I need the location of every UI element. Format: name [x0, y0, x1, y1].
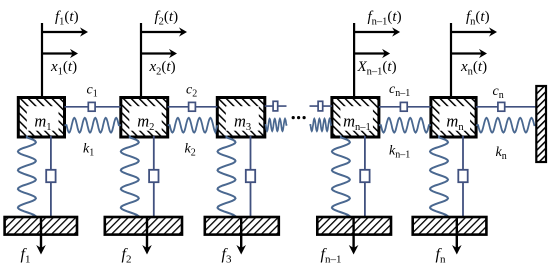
vertical damper under mass 2	[149, 136, 158, 218]
arrow f_2(t)	[141, 31, 182, 33]
vertical damper under mass 3	[246, 136, 255, 218]
ground block 3	[205, 217, 279, 235]
mass m1	[18, 98, 64, 138]
right wall	[536, 86, 546, 162]
arrow x_2(t)	[141, 52, 172, 54]
vertical spring under mass 1	[18, 136, 36, 219]
vertical damper under mass 1	[46, 136, 55, 218]
damper cn-1	[379, 102, 431, 111]
vertical spring under mass 4	[332, 136, 350, 219]
ground block 5	[413, 217, 487, 235]
svg-text:f1(t): f1(t)	[55, 9, 79, 28]
ground block 1	[5, 217, 77, 235]
svg-text:x1(t): x1(t)	[50, 59, 77, 78]
svg-text:xn(t): xn(t)	[460, 59, 487, 78]
output arrow f_n	[456, 217, 458, 248]
force input line mass fn	[450, 23, 452, 100]
damper cn	[476, 102, 536, 111]
arrow x_n&#8211;1(t)	[354, 52, 385, 54]
arrow f_n&#8211;1(t)	[354, 31, 395, 33]
vertical spring under mass 5	[430, 136, 448, 219]
svg-text:f2(t): f2(t)	[155, 9, 179, 28]
arrow f_1(t)	[42, 31, 83, 33]
ground block 4	[317, 217, 391, 235]
output arrow f_2	[146, 217, 148, 248]
spring fragment left of mn-1	[310, 119, 332, 131]
mass mn	[431, 98, 476, 138]
mass m3	[217, 98, 264, 138]
arrow x_1(t)	[42, 52, 73, 54]
force input line mass f2	[140, 23, 142, 100]
mass mn-1	[332, 98, 379, 138]
spring k1	[65, 118, 121, 133]
vertical spring under mass 3	[218, 136, 236, 219]
arrow x_n(t)	[451, 52, 482, 54]
svg-text:fn(t): fn(t)	[466, 9, 490, 28]
svg-text:x2(t): x2(t)	[149, 59, 176, 78]
damper c1	[65, 102, 121, 111]
spring fragment right of m3	[265, 119, 288, 131]
output arrow f_3	[240, 217, 242, 248]
vertical damper under mass 4	[360, 136, 369, 218]
arrow f_n(t)	[451, 31, 492, 33]
vertical spring under mass 2	[121, 136, 139, 219]
vertical damper under mass 5	[458, 136, 467, 218]
force input line mass fn&#8211;1	[353, 23, 355, 100]
damper fragment right of m3	[265, 101, 287, 111]
damper fragment left of mn-1	[310, 101, 332, 111]
output arrow f_1	[40, 217, 42, 248]
ground block 2	[105, 217, 182, 235]
damper c2	[168, 102, 218, 111]
spring k2	[168, 118, 218, 133]
ellipsis dots	[292, 116, 306, 119]
mass m2	[121, 98, 168, 138]
output arrow f_n&#8211;1	[352, 217, 354, 248]
spring kn	[476, 118, 536, 133]
force input line mass f1	[41, 23, 43, 100]
spring kn-1	[379, 118, 431, 133]
